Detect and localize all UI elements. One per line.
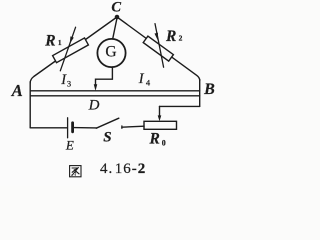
battery E short plate: [71, 123, 74, 132]
slide wire AB top line: [30, 90, 200, 92]
wire switch to R0: [122, 126, 144, 127]
svg-text:A: A: [11, 81, 23, 100]
svg-text:C: C: [111, 0, 121, 16]
arrowhead onto D: [94, 84, 98, 91]
slide wire AB bottom line: [30, 95, 200, 97]
resistor R2 body: [143, 36, 173, 61]
battery E long plate: [67, 118, 69, 138]
wire C to galvanometer: [113, 18, 118, 40]
caption character tu (图) drawn as strokes: [70, 166, 81, 177]
wire G down: [96, 67, 113, 85]
arrow through R2: [154, 24, 163, 68]
svg-text:E: E: [65, 138, 74, 153]
svg-text:3: 3: [67, 79, 71, 89]
arrow through R1: [60, 27, 75, 71]
svg-text:4: 4: [146, 78, 151, 88]
switch right contact tick: [121, 126, 123, 128]
wire C to B diagonal: [117, 17, 200, 81]
resistor R0 body: [144, 121, 177, 129]
wire to R0 top: [160, 105, 200, 107]
wire C to A diagonal: [30, 17, 117, 83]
wire battery to switch: [74, 127, 97, 129]
svg-text:0: 0: [162, 138, 166, 147]
svg-text:R: R: [44, 32, 55, 49]
svg-text:B: B: [203, 81, 215, 98]
wire bottom left: [30, 127, 67, 129]
svg-text:R: R: [149, 131, 160, 148]
switch S blade: [96, 118, 119, 128]
svg-text:4.16-2: 4.16-2: [100, 161, 146, 177]
galvanometer G circle: [97, 39, 125, 67]
wire B down right side: [199, 80, 201, 107]
svg-text:D: D: [88, 97, 100, 113]
svg-text:2: 2: [179, 34, 183, 43]
svg-text:S: S: [103, 130, 111, 146]
rheostat wiper arrow onto R0: [159, 106, 161, 116]
svg-text:R: R: [165, 28, 176, 45]
wire A down left side: [29, 82, 31, 128]
svg-text:1: 1: [58, 38, 62, 47]
resistor R1 body: [53, 38, 89, 63]
node C dot: [115, 15, 120, 20]
svg-text:G: G: [105, 43, 116, 60]
